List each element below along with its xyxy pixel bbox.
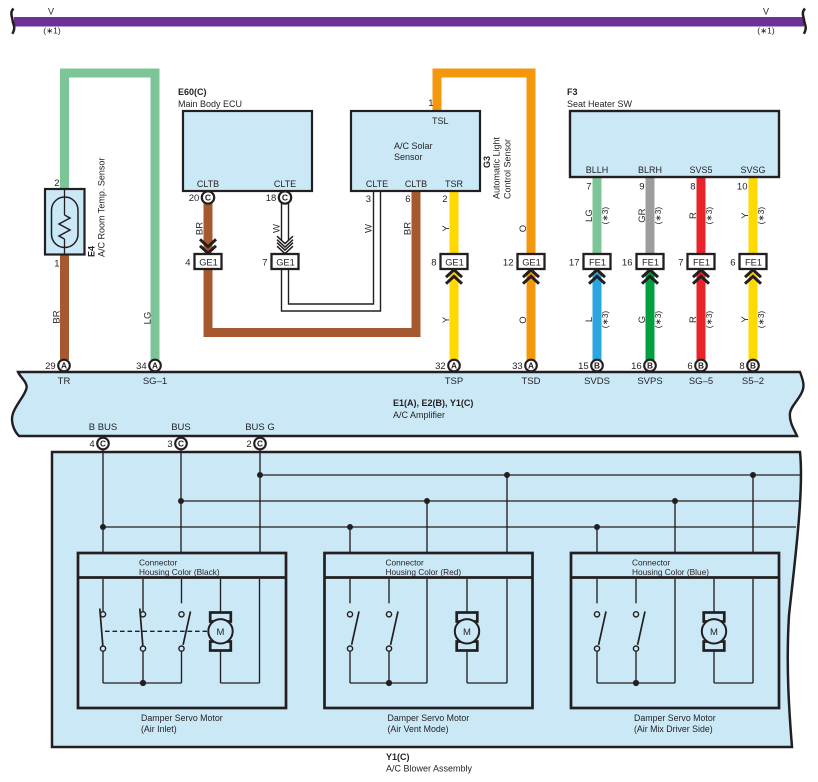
svg-text:SVPS: SVPS — [637, 376, 662, 387]
svg-text:(∗3): (∗3) — [600, 207, 610, 225]
svg-text:7: 7 — [678, 258, 683, 269]
svg-text:(∗3): (∗3) — [653, 207, 663, 225]
svg-text:M: M — [217, 627, 225, 638]
svg-text:BUS G: BUS G — [245, 422, 275, 433]
svg-text:6: 6 — [405, 194, 410, 205]
svg-text:3: 3 — [366, 194, 371, 205]
svg-text:CLTE: CLTE — [274, 179, 296, 189]
svg-text:TSR: TSR — [445, 179, 464, 189]
svg-text:A: A — [152, 361, 158, 371]
svg-text:C: C — [282, 193, 288, 203]
svg-text:20: 20 — [189, 193, 200, 204]
svg-text:17: 17 — [569, 258, 580, 269]
svg-text:F3: F3 — [567, 87, 578, 97]
svg-text:7: 7 — [262, 258, 267, 269]
svg-text:(∗3): (∗3) — [600, 311, 610, 329]
svg-text:32: 32 — [435, 361, 446, 372]
svg-text:10: 10 — [737, 182, 748, 193]
svg-text:M: M — [463, 627, 471, 638]
svg-text:E4: E4 — [87, 246, 97, 257]
svg-text:SVDS: SVDS — [584, 376, 610, 387]
svg-text:O: O — [518, 316, 529, 323]
svg-text:BUS: BUS — [171, 422, 191, 433]
svg-text:Y: Y — [441, 225, 452, 232]
svg-text:8: 8 — [739, 361, 744, 372]
svg-text:4: 4 — [89, 439, 94, 450]
svg-text:Damper Servo Motor: Damper Servo Motor — [388, 713, 470, 723]
svg-text:G: G — [637, 316, 648, 323]
svg-text:G3: G3 — [482, 156, 492, 168]
svg-text:(∗3): (∗3) — [704, 207, 714, 225]
svg-text:W: W — [364, 224, 375, 233]
svg-text:CLTE: CLTE — [366, 179, 388, 189]
svg-text:BR: BR — [52, 310, 63, 323]
svg-text:SVS5: SVS5 — [689, 165, 712, 175]
svg-text:(∗3): (∗3) — [704, 311, 714, 329]
svg-text:CLTB: CLTB — [197, 179, 219, 189]
svg-text:GE1: GE1 — [445, 257, 464, 267]
svg-text:M: M — [710, 627, 718, 638]
svg-text:Automatic Light: Automatic Light — [492, 136, 502, 199]
svg-text:E1(A), E2(B), Y1(C): E1(A), E2(B), Y1(C) — [393, 398, 473, 408]
svg-text:4: 4 — [185, 258, 190, 269]
svg-text:2: 2 — [54, 178, 59, 189]
svg-text:LG: LG — [143, 312, 154, 325]
svg-text:BLRH: BLRH — [638, 165, 662, 175]
svg-text:Sensor: Sensor — [394, 152, 423, 162]
svg-text:A: A — [451, 361, 457, 371]
svg-text:12: 12 — [503, 258, 514, 269]
svg-text:(Air Inlet): (Air Inlet) — [141, 724, 177, 734]
svg-text:29: 29 — [45, 361, 56, 372]
svg-text:CLTB: CLTB — [405, 179, 427, 189]
svg-text:(Air Mix Driver Side): (Air Mix Driver Side) — [634, 724, 713, 734]
svg-text:BR: BR — [403, 222, 414, 235]
svg-text:FE1: FE1 — [693, 257, 710, 267]
svg-text:R: R — [688, 316, 699, 323]
svg-text:16: 16 — [622, 258, 633, 269]
svg-text:E60(C): E60(C) — [178, 87, 207, 97]
svg-text:A/C Blower Assembly: A/C Blower Assembly — [386, 764, 473, 774]
svg-text:(∗1): (∗1) — [43, 26, 61, 36]
svg-text:B: B — [698, 361, 704, 371]
svg-text:Main Body ECU: Main Body ECU — [178, 99, 242, 109]
svg-text:(∗3): (∗3) — [756, 207, 766, 225]
svg-text:9: 9 — [639, 182, 644, 193]
svg-text:GE1: GE1 — [199, 257, 218, 267]
svg-text:(∗3): (∗3) — [756, 311, 766, 329]
svg-text:B: B — [594, 361, 600, 371]
svg-text:Seat Heater SW: Seat Heater SW — [567, 99, 633, 109]
svg-text:(Air Vent Mode): (Air Vent Mode) — [388, 724, 449, 734]
svg-text:O: O — [518, 225, 529, 232]
svg-text:2: 2 — [442, 194, 447, 205]
svg-text:FE1: FE1 — [589, 257, 606, 267]
svg-text:Housing Color (Black): Housing Color (Black) — [139, 567, 220, 577]
svg-text:Damper Servo Motor: Damper Servo Motor — [634, 713, 716, 723]
svg-text:R: R — [688, 212, 699, 219]
svg-text:18: 18 — [266, 193, 277, 204]
svg-text:(∗3): (∗3) — [653, 311, 663, 329]
svg-text:A/C Solar: A/C Solar — [394, 141, 433, 151]
svg-text:Damper Servo Motor: Damper Servo Motor — [141, 713, 223, 723]
svg-text:8: 8 — [431, 258, 436, 269]
svg-text:Y: Y — [441, 316, 452, 323]
svg-text:Housing Color (Red): Housing Color (Red) — [386, 567, 462, 577]
svg-text:33: 33 — [512, 361, 523, 372]
svg-text:V: V — [763, 7, 769, 17]
svg-text:FE1: FE1 — [745, 257, 762, 267]
svg-text:B: B — [750, 361, 756, 371]
svg-text:C: C — [178, 439, 184, 449]
svg-text:(∗1): (∗1) — [757, 26, 775, 36]
svg-text:7: 7 — [586, 182, 591, 193]
svg-text:TSD: TSD — [522, 376, 541, 387]
svg-text:GR: GR — [637, 208, 648, 222]
svg-text:8: 8 — [690, 182, 695, 193]
svg-text:SVSG: SVSG — [740, 165, 765, 175]
svg-text:Housing Color (Blue): Housing Color (Blue) — [632, 567, 709, 577]
svg-text:Y1(C): Y1(C) — [386, 752, 410, 762]
svg-text:1: 1 — [54, 259, 59, 270]
svg-text:2: 2 — [246, 439, 251, 450]
svg-text:3: 3 — [167, 439, 172, 450]
svg-text:6: 6 — [687, 361, 692, 372]
svg-text:Y: Y — [740, 316, 751, 323]
svg-text:TR: TR — [58, 376, 71, 387]
svg-text:C: C — [205, 193, 211, 203]
svg-text:SG–5: SG–5 — [689, 376, 713, 387]
svg-text:L: L — [584, 317, 595, 322]
svg-text:Control Sensor: Control Sensor — [503, 139, 513, 199]
svg-text:GE1: GE1 — [276, 257, 295, 267]
svg-text:LG: LG — [584, 209, 595, 222]
svg-text:A: A — [528, 361, 534, 371]
svg-text:B: B — [647, 361, 653, 371]
svg-text:15: 15 — [578, 361, 589, 372]
svg-text:A: A — [61, 361, 67, 371]
svg-text:V: V — [48, 7, 54, 17]
svg-text:FE1: FE1 — [642, 257, 659, 267]
svg-text:16: 16 — [631, 361, 642, 372]
svg-text:B BUS: B BUS — [89, 422, 118, 433]
svg-text:C: C — [100, 439, 106, 449]
svg-text:Y: Y — [740, 212, 751, 219]
svg-text:BLLH: BLLH — [586, 165, 609, 175]
svg-text:W: W — [272, 224, 283, 233]
svg-text:34: 34 — [136, 361, 147, 372]
svg-text:A/C Amplifier: A/C Amplifier — [393, 410, 445, 420]
svg-text:GE1: GE1 — [522, 257, 541, 267]
svg-text:BR: BR — [195, 222, 206, 235]
svg-text:TSL: TSL — [432, 116, 449, 126]
svg-text:1: 1 — [428, 98, 433, 109]
svg-text:C: C — [257, 439, 263, 449]
svg-text:SG–1: SG–1 — [143, 376, 167, 387]
svg-text:S5–2: S5–2 — [742, 376, 764, 387]
svg-text:A/C Room Temp. Sensor: A/C Room Temp. Sensor — [97, 158, 107, 257]
svg-text:TSP: TSP — [445, 376, 463, 387]
svg-text:6: 6 — [730, 258, 735, 269]
